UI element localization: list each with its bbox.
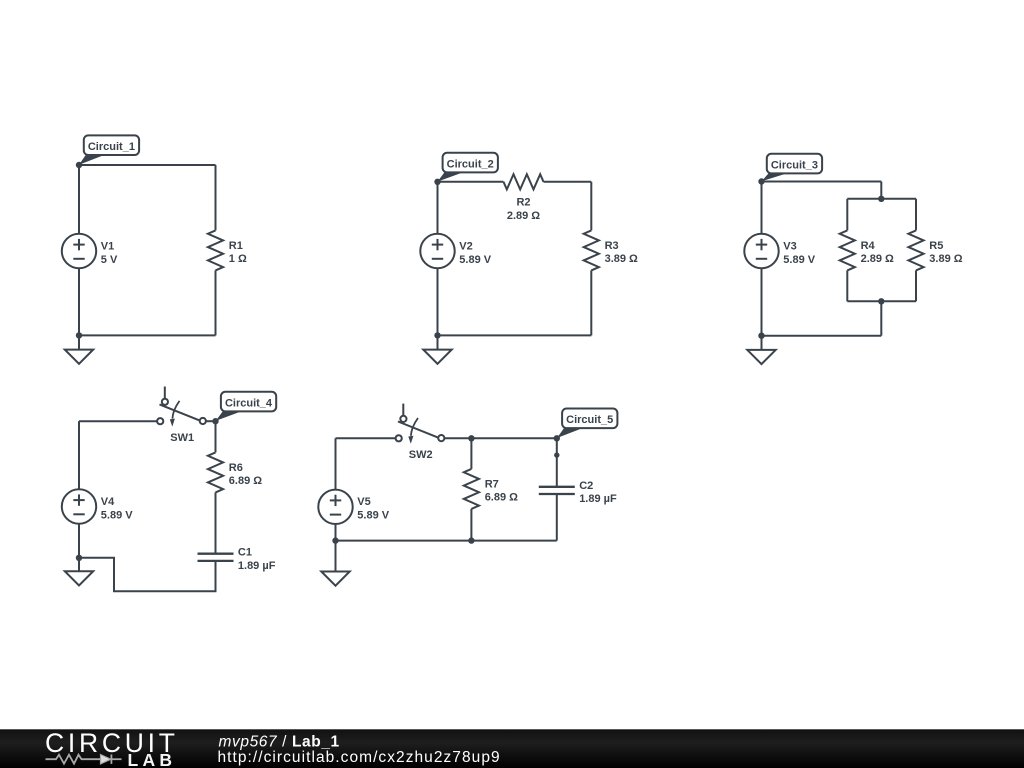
label R2 value [507,197,540,222]
wire [847,198,916,200]
node circuit 5 R7 bottom [468,537,474,543]
label V5 value [357,496,389,521]
wire [78,165,80,234]
wire [846,270,848,301]
label R1 value [229,240,247,265]
svg-text:1 Ω: 1 Ω [229,253,247,265]
wire [556,494,558,541]
label Circuit_5 callout [557,409,617,439]
wire [78,268,80,335]
wire [336,540,557,542]
svg-text:5 V: 5 V [101,254,118,266]
svg-text:Circuit_5: Circuit_5 [566,414,613,426]
node circuit 5 R7 top [468,435,474,441]
label Circuit_3 callout [762,154,823,182]
resistor R7 [464,469,479,509]
svg-text:6.89 Ω: 6.89 Ω [229,475,262,487]
label V1 value [101,240,118,265]
node parallel bottom [878,298,884,304]
svg-text:5.89 V: 5.89 V [783,254,815,266]
wire [215,421,217,452]
node circuit 5 bottom [332,537,338,543]
wire [79,558,216,591]
node circuit 1 bottom [76,332,82,338]
wire [335,524,337,541]
svg-text:Circuit_1: Circuit_1 [88,141,135,153]
voltage source V2 [420,234,454,268]
switch SW2 [396,404,445,444]
node circuit 4 top [212,418,218,424]
svg-text:5.89 V: 5.89 V [101,509,133,521]
label R4 value [861,240,894,265]
label C2 value [579,480,617,505]
wire [215,492,217,553]
node circuit 2 bottom [434,332,440,338]
wire [470,509,472,541]
label R6 value [229,462,262,487]
wire [437,182,439,234]
wire [437,268,439,335]
svg-text:C2: C2 [579,480,593,492]
voltage source V1 [62,234,96,268]
wire [215,165,217,230]
node circuit 4 ground node [76,555,82,561]
svg-text:5.89 V: 5.89 V [357,510,389,522]
label Circuit_4 callout [216,392,276,421]
node circuit 5 top right [554,435,560,441]
voltage source V3 [744,234,778,268]
resistor R6 [208,452,223,492]
voltage source V5 [318,490,352,524]
wire [215,270,217,335]
wire [335,438,337,489]
svg-text:3.89 Ω: 3.89 Ω [929,253,962,265]
label Circuit_2 callout [438,153,498,182]
ground [65,558,93,586]
wire [444,437,471,439]
label V2 value [459,240,491,265]
label C1 value [238,547,276,572]
wire [880,182,882,199]
wire [79,420,157,422]
svg-text:Circuit_4: Circuit_4 [225,397,273,409]
node circuit 3 bottom [758,333,764,339]
svg-text:V3: V3 [783,240,796,252]
wire [880,301,882,335]
svg-text:V1: V1 [101,240,114,252]
node circuit 2 top-left [434,179,440,185]
svg-text:R3: R3 [605,240,619,252]
svg-text:1.89 µF: 1.89 µF [238,560,276,572]
svg-text:Circuit_2: Circuit_2 [447,158,494,170]
svg-text:Circuit_3: Circuit_3 [771,159,818,171]
label R7 value [485,478,518,503]
label V3 value [783,240,815,265]
svg-text:http://circuitlab.com/cx2zhu2z: http://circuitlab.com/cx2zhu2z78up9 [218,749,501,766]
wire [544,181,592,183]
wire [206,420,216,422]
svg-text:mvp567 / Lab_1: mvp567 / Lab_1 [219,733,340,750]
svg-text:LAB: LAB [128,750,177,768]
wire [762,335,882,337]
svg-text:5.89 V: 5.89 V [459,254,491,266]
svg-text:V2: V2 [459,240,472,252]
resistor R5 [908,230,923,270]
wire [79,164,216,166]
wire [438,181,504,183]
svg-text:SW2: SW2 [409,449,433,461]
svg-text:3.89 Ω: 3.89 Ω [605,253,638,265]
svg-text:1.89 µF: 1.89 µF [579,493,617,505]
svg-text:R7: R7 [485,478,499,490]
svg-text:2.89 Ω: 2.89 Ω [507,210,540,222]
resistor R1 [208,230,223,270]
resistor R3 [584,230,599,270]
svg-text:R4: R4 [861,240,876,252]
wire [761,182,763,234]
label R3 value [605,240,638,265]
node circuit 3 top-left [758,178,764,184]
wire [471,437,556,439]
wire [79,334,216,336]
wire [590,270,592,335]
svg-text:6.89 Ω: 6.89 Ω [485,492,518,504]
wire [556,438,558,487]
wire [761,268,763,336]
svg-text:SW1: SW1 [170,432,194,444]
ground [747,336,775,364]
wire [78,524,80,558]
switch SW1 [157,387,206,427]
voltage source V4 [62,489,96,523]
capacitor C1 [198,554,234,561]
svg-text:V5: V5 [357,496,370,508]
svg-text:R6: R6 [229,462,243,474]
capacitor C2 [539,487,575,494]
wire [438,334,592,336]
wire [470,438,472,469]
resistor R4 [840,230,855,270]
wire [78,421,80,489]
wire [846,199,848,231]
svg-text:V4: V4 [101,496,115,508]
svg-text:2.89 Ω: 2.89 Ω [861,253,894,265]
node parallel top [878,196,884,202]
ground [65,335,93,363]
label V4 value [101,496,133,521]
resistor R2 [504,174,544,189]
wire [762,181,882,183]
wire [336,437,396,439]
svg-text:R2: R2 [516,197,530,209]
svg-text:C1: C1 [238,547,252,559]
wire [915,199,917,231]
label Circuit_1 callout [79,135,139,164]
wire [590,182,592,231]
svg-text:R5: R5 [929,240,943,252]
wire [915,270,917,301]
wire [847,300,916,302]
logo resistor-diode glyph [46,755,122,764]
node circuit 1 top-left [76,162,82,168]
svg-text:R1: R1 [229,240,243,252]
label R5 value [929,240,962,265]
ground [423,335,451,363]
ground [321,541,349,586]
node C2 top terminal [554,452,559,457]
